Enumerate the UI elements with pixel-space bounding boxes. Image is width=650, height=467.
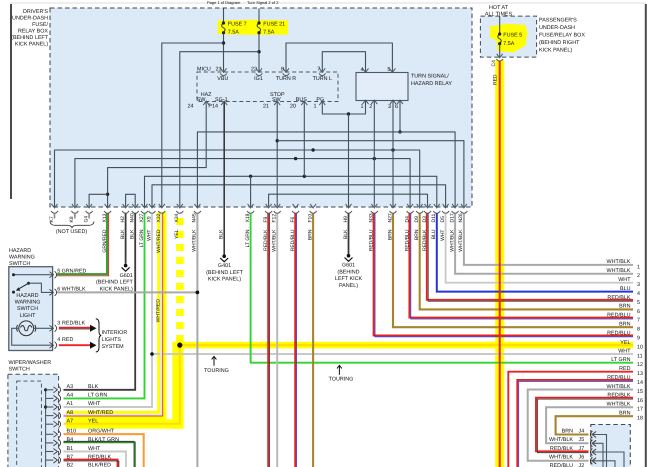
svg-text:4: 4 <box>637 291 640 297</box>
svg-text:WHT/BLK: WHT/BLK <box>458 229 464 252</box>
wire hazard pin4 RED <box>59 344 91 346</box>
pin D11 <box>433 204 440 213</box>
svg-text:3: 3 <box>57 320 60 326</box>
svg-text:B4: B4 <box>67 437 74 443</box>
page border left <box>10 4 12 199</box>
pin hazard 3 <box>49 325 56 332</box>
svg-text:WARNING: WARNING <box>15 300 41 306</box>
svg-text:D9: D9 <box>414 216 420 223</box>
wire N26 feed line <box>277 141 464 207</box>
label wiper/washer switch <box>9 360 52 373</box>
pin F10 <box>310 204 317 213</box>
node hazard blade pivot <box>27 282 30 285</box>
hazard warning switch box SW1 <box>9 267 53 351</box>
svg-text:A4: A4 <box>67 393 74 399</box>
svg-text:RED: RED <box>619 366 630 372</box>
label hot at all times <box>485 5 513 18</box>
wire N26 WHT/BLK row 1 <box>464 214 633 265</box>
svg-text:RED/BLU: RED/BLU <box>369 229 375 251</box>
svg-text:H9: H9 <box>343 216 349 223</box>
pin wiper B10 <box>53 431 60 438</box>
svg-text:12: 12 <box>637 362 643 368</box>
pin G4 <box>86 204 93 213</box>
pin MICU 7 <box>319 68 326 75</box>
svg-text:SWITCH: SWITCH <box>9 367 30 373</box>
svg-text:BLK/LT GRN: BLK/LT GRN <box>88 437 119 443</box>
hazard switch blade <box>16 283 29 291</box>
svg-text:TOURING: TOURING <box>204 368 229 374</box>
svg-text:RED/BLK: RED/BLK <box>88 454 111 460</box>
svg-text:RED/BLU: RED/BLU <box>290 229 296 251</box>
stub G4 <box>88 213 90 219</box>
pin MICU 1 <box>319 101 325 105</box>
wire D5 WHT row 3 <box>446 214 633 283</box>
svg-text:X27: X27 <box>139 213 145 222</box>
svg-text:BLK: BLK <box>120 229 126 239</box>
svg-text:RED/BLK: RED/BLK <box>422 229 428 251</box>
pin relay 3 <box>390 100 396 104</box>
svg-text:20: 20 <box>290 103 296 109</box>
wiper row stubs <box>46 390 54 460</box>
wire K7 line to D9 <box>55 150 420 207</box>
pin relay top 5 arrow <box>389 68 395 72</box>
svg-text:N33: N33 <box>369 213 375 222</box>
svg-text:WHT/BLK: WHT/BLK <box>607 384 631 390</box>
wire wiper B4 BLK/LT GRN <box>64 442 135 467</box>
svg-text:WHT/BLK: WHT/BLK <box>192 229 198 252</box>
svg-text:9: 9 <box>637 336 640 342</box>
svg-text:F12: F12 <box>272 214 278 223</box>
wire BUS from MICU pin20 <box>303 102 305 176</box>
svg-text:BUS: BUS <box>296 97 307 103</box>
svg-text:HOT AT: HOT AT <box>489 5 509 11</box>
svg-text:FUSE 7: FUSE 7 <box>228 21 247 27</box>
rotated pin id labels <box>49 213 464 222</box>
svg-text:WHT: WHT <box>88 446 101 452</box>
wire SG-1 P14 drop to G401 <box>223 102 225 255</box>
node relay pin2 junction on K8 line <box>373 157 376 160</box>
numbers right rows <box>637 264 643 421</box>
node YEL junction <box>177 343 182 348</box>
svg-text:INTERIOR: INTERIOR <box>102 330 128 336</box>
pin relay 2 <box>371 100 377 104</box>
svg-text:BLK: BLK <box>130 229 136 239</box>
svg-text:G601: G601 <box>342 263 355 269</box>
pin X13 <box>104 204 111 213</box>
wire D17 WHT/BLK row 2 <box>455 214 633 274</box>
svg-text:SWITCH: SWITCH <box>17 306 38 312</box>
label HAZ SW <box>197 92 212 103</box>
svg-text:WHT/RED: WHT/RED <box>156 299 162 323</box>
pin D9 <box>416 204 423 213</box>
node X19 tap on X27 line <box>249 175 252 178</box>
wire fuse7 feed from box top <box>223 9 225 22</box>
svg-text:22: 22 <box>251 67 257 73</box>
label fuse5 <box>503 33 522 47</box>
wire H2 BLK to G601 <box>125 214 127 264</box>
svg-text:G4: G4 <box>83 216 89 223</box>
pin wiper B7 <box>53 457 60 464</box>
label driver box <box>11 9 49 48</box>
wire H2-N40 bridge <box>126 194 136 206</box>
pin MICU 24 <box>203 101 209 105</box>
svg-text:N45: N45 <box>192 213 198 222</box>
svg-text:SG-1: SG-1 <box>215 97 228 103</box>
pin relay top 4 arrow <box>363 68 369 72</box>
svg-text:WHT/BLK: WHT/BLK <box>607 268 631 274</box>
wire N45 / D17 line <box>197 132 455 207</box>
svg-text:BLU: BLU <box>431 229 437 239</box>
wire hazard pin6 WHT/BLK <box>57 291 197 293</box>
wire D9 BRN row 6 <box>420 214 633 310</box>
pin MICU 22 <box>256 68 263 75</box>
svg-text:YEL: YEL <box>174 229 180 239</box>
svg-text:6: 6 <box>395 104 398 110</box>
wire N40 BLK to wiper A3 <box>64 214 136 390</box>
svg-text:15: 15 <box>637 389 643 395</box>
svg-text:5: 5 <box>57 269 60 275</box>
svg-text:5: 5 <box>387 67 390 73</box>
svg-text:KICK PANEL): KICK PANEL) <box>15 42 48 48</box>
svg-text:TURN L: TURN L <box>313 76 332 82</box>
svg-text:N27: N27 <box>387 213 393 222</box>
pin N45 <box>194 204 201 213</box>
svg-text:18: 18 <box>637 416 643 422</box>
wire PG MICU pin1 to relay pin1 <box>322 101 365 114</box>
svg-text:GRN/RED: GRN/RED <box>62 269 87 275</box>
ground G601 left <box>122 264 130 271</box>
fuse F7 symbol <box>222 21 226 34</box>
wire N33 RED/BLU row 9 <box>374 214 633 336</box>
svg-text:GRN/RED: GRN/RED <box>102 229 108 252</box>
ground G601 right <box>345 254 353 261</box>
node wiper A1 <box>44 405 47 408</box>
svg-text:B7: B7 <box>67 454 74 460</box>
pin F6 <box>292 204 299 213</box>
svg-text:LEFT KICK: LEFT KICK <box>335 276 363 282</box>
svg-text:A8: A8 <box>67 410 74 416</box>
svg-text:HAZARD RELAY: HAZARD RELAY <box>411 81 452 87</box>
label G601 right <box>335 263 363 289</box>
svg-text:(BEHIND LEFT: (BEHIND LEFT <box>11 35 49 41</box>
highlight WHT/RED wire vertical <box>157 212 166 420</box>
wire X34 YEL to wiper A7 <box>64 342 180 424</box>
svg-text:N26: N26 <box>458 213 464 222</box>
svg-text:LIGHTS: LIGHTS <box>102 337 122 343</box>
svg-text:F6: F6 <box>290 216 296 222</box>
ground G401 <box>220 254 228 261</box>
pin D17 <box>452 204 459 213</box>
lamp left lead to pin4 <box>12 328 53 345</box>
svg-text:LT GRN: LT GRN <box>245 229 251 247</box>
pin relay 6 <box>397 100 403 104</box>
pin H2 <box>122 204 129 213</box>
pin N33 <box>371 204 378 213</box>
node H9 tap on PG line <box>347 112 350 115</box>
wire F10 BRN down <box>312 214 314 467</box>
svg-text:J7: J7 <box>579 446 585 452</box>
wire WHT row 11 to right edge <box>152 353 633 355</box>
label hazard pin6 <box>57 286 86 292</box>
svg-text:J5: J5 <box>579 437 585 443</box>
svg-text:8: 8 <box>281 67 284 73</box>
svg-text:BLK: BLK <box>219 229 225 239</box>
node relay pin6 junction on D17 line <box>398 130 401 133</box>
label hazard pin5 <box>57 269 86 275</box>
wire F9 line to D3 <box>269 194 428 206</box>
svg-text:K7: K7 <box>49 216 55 222</box>
wire X13 GRN/RED to hazard pin5 <box>57 214 107 275</box>
wire X27 line to D11 <box>145 176 437 206</box>
svg-text:HAZARD: HAZARD <box>16 293 38 299</box>
svg-text:BRN: BRN <box>307 229 313 240</box>
svg-text:TOURING: TOURING <box>329 377 354 383</box>
pin F9 <box>265 204 272 213</box>
pin MICU 20 <box>301 101 307 105</box>
pin wiper B1 <box>53 448 60 455</box>
svg-text:SW: SW <box>197 97 207 103</box>
svg-text:WARNING: WARNING <box>9 254 35 260</box>
wire H9 hang <box>348 114 350 207</box>
wire G4 stub <box>89 194 108 206</box>
svg-text:H2: H2 <box>120 216 126 223</box>
pin X34 <box>176 204 183 213</box>
svg-text:B1: B1 <box>67 446 74 452</box>
svg-text:LT GRN: LT GRN <box>88 393 107 399</box>
svg-text:BRN: BRN <box>619 304 630 310</box>
svg-text:RELAY BOX: RELAY BOX <box>18 29 48 35</box>
svg-text:UNDER-DASH: UNDER-DASH <box>12 16 48 22</box>
pin X27 <box>141 204 148 213</box>
wire wiper B1 WHT <box>64 452 126 467</box>
svg-text:VBU: VBU <box>217 76 228 82</box>
label G401 <box>206 263 244 283</box>
junction box (bottom right) <box>591 425 631 467</box>
fuse5 feed wire <box>499 16 501 32</box>
fuse F21 symbol <box>257 21 261 34</box>
brace not used <box>50 222 94 229</box>
wire J7 internal <box>592 452 624 467</box>
svg-text:X32: X32 <box>156 213 162 222</box>
pin wiper A4 <box>53 395 60 402</box>
svg-text:RED/BLU: RED/BLU <box>607 330 630 336</box>
pin hazard 4 <box>49 342 56 349</box>
node wiper A3 <box>44 388 47 391</box>
svg-text:ORG/WHT: ORG/WHT <box>88 429 115 435</box>
svg-text:24: 24 <box>188 103 194 109</box>
wire IG1 from fuse21 to MICU pin 22 <box>258 34 260 72</box>
node relay pin3 junction on K7 line <box>391 148 394 151</box>
pin X32 <box>158 204 165 213</box>
pin wiper A1 <box>53 404 60 411</box>
svg-text:4: 4 <box>57 337 60 343</box>
wire X27 LT GRN to wiper A4 <box>64 214 145 399</box>
highlight YEL row 10 horizontal band <box>176 342 633 349</box>
svg-text:IG1: IG1 <box>254 76 263 82</box>
svg-text:2: 2 <box>637 273 640 279</box>
wire F6 RED/BLU down <box>294 214 296 467</box>
svg-text:5: 5 <box>637 300 640 306</box>
wire fuse5 to C4 connector <box>499 45 501 58</box>
svg-text:LT GRN: LT GRN <box>611 357 630 363</box>
wire J4 internal <box>592 435 606 467</box>
svg-text:G601: G601 <box>120 273 133 279</box>
wire N45 WHT/BLK down <box>196 214 198 467</box>
svg-text:BRN: BRN <box>619 322 630 328</box>
svg-text:PANEL): PANEL) <box>339 283 358 289</box>
wire J5 internal <box>592 443 603 467</box>
node hazard contact 5 <box>12 273 15 276</box>
touring arrow 1 <box>212 356 217 365</box>
svg-text:ALL TIMES: ALL TIMES <box>485 12 513 18</box>
svg-text:FUSE/: FUSE/ <box>32 22 48 28</box>
wire fuse21 feed from box top <box>258 9 260 22</box>
node F10 tap on K7 line <box>311 148 314 151</box>
svg-text:WHT/BLK: WHT/BLK <box>62 286 86 292</box>
wire WHT/BLK row 15 to J6 <box>528 390 633 461</box>
highlight fuse7/fuse21 <box>218 20 289 35</box>
wire hazard pin3 RED/BLK <box>59 327 91 329</box>
svg-text:WHT/BLK: WHT/BLK <box>607 402 631 408</box>
svg-text:23: 23 <box>216 67 222 73</box>
turn signal / hazard relay box U1 <box>356 73 408 101</box>
pin hazard 6 <box>49 289 56 296</box>
page border top <box>10 2 646 4</box>
highlight YEL wire dashed segments <box>176 218 184 342</box>
wire X13 to MICU pin24 HAZ SW <box>108 102 207 207</box>
svg-text:WHT/BLK: WHT/BLK <box>607 259 631 265</box>
pin D4 <box>407 204 414 213</box>
wire STOP SW MICU pin21 to F12 <box>276 102 278 207</box>
driver's under-dash fuse/relay box <box>50 8 472 207</box>
svg-text:7: 7 <box>637 318 640 324</box>
wire D4 RED/BLU row 7 <box>409 214 633 318</box>
svg-text:RED/BLU: RED/BLU <box>550 463 573 467</box>
svg-text:10: 10 <box>637 345 643 351</box>
svg-text:4: 4 <box>361 67 364 73</box>
svg-text:P14: P14 <box>208 103 218 109</box>
wire YEL row 10 to right edge <box>180 344 633 346</box>
node N26 feed tap on STOP wire <box>276 139 279 142</box>
svg-text:B10: B10 <box>67 429 77 435</box>
wire D11 BLU row 4 <box>437 214 633 292</box>
label hazard warning switch <box>9 248 35 267</box>
svg-text:BRN: BRN <box>619 411 630 417</box>
label STOP SW <box>270 92 285 103</box>
hazard switch contact line to pin5 <box>14 274 54 276</box>
wire D3 RED/BLK row 5 <box>427 214 633 300</box>
svg-text:D5: D5 <box>440 216 446 223</box>
wire VBU from fuse7 to MICU pin 23 <box>223 34 225 72</box>
svg-text:WHT/BLK: WHT/BLK <box>449 229 455 252</box>
node IG1 junction <box>257 50 260 53</box>
svg-text:A1: A1 <box>67 401 74 407</box>
pin MICU 23 <box>220 68 227 75</box>
MICU box <box>197 72 338 102</box>
svg-text:3: 3 <box>637 282 640 288</box>
wiper/washer switch box SW2 <box>8 374 59 467</box>
pin C4 <box>496 54 503 61</box>
pin N27 <box>390 204 397 213</box>
label fuse21 <box>263 21 285 35</box>
node hazard WHT/BLK junction <box>196 291 200 295</box>
svg-text:WHT: WHT <box>440 230 446 241</box>
svg-text:DRIVER'S: DRIVER'S <box>23 9 48 15</box>
pin J4 <box>590 431 596 438</box>
passenger's under-dash fuse/relay box <box>480 16 536 57</box>
svg-text:(BEHIND: (BEHIND <box>337 269 359 275</box>
wire RED/BLU row 14 <box>517 380 633 467</box>
svg-text:F10: F10 <box>307 214 313 223</box>
svg-text:8: 8 <box>637 327 640 333</box>
node VBU junction <box>222 41 225 44</box>
label fuse7 <box>228 21 247 35</box>
svg-text:WHT/RED: WHT/RED <box>88 410 113 416</box>
pin J7 <box>590 449 596 456</box>
svg-text:BRN: BRN <box>414 229 420 240</box>
svg-text:RED: RED <box>492 74 498 85</box>
label hazard warning switch light <box>15 293 41 319</box>
svg-text:LIGHT: LIGHT <box>20 313 37 319</box>
wire WHT/BLK row 17 to J5 <box>546 407 633 443</box>
svg-text:PG: PG <box>316 97 324 103</box>
pin MICU 8 <box>283 68 290 75</box>
wire F9 RED/BLK down <box>267 214 269 467</box>
svg-text:RED/BLK: RED/BLK <box>263 229 269 251</box>
svg-text:21: 21 <box>263 103 269 109</box>
svg-text:1: 1 <box>361 104 364 110</box>
svg-text:17: 17 <box>637 407 643 413</box>
label passenger box <box>539 18 585 54</box>
svg-text:RED/BLU: RED/BLU <box>607 375 630 381</box>
svg-text:BLU: BLU <box>620 286 631 292</box>
svg-text:MICU: MICU <box>197 67 211 73</box>
highlight RED wire from passenger box <box>495 60 504 467</box>
wiper switch common vertical <box>45 390 47 467</box>
pin X19 <box>247 204 254 213</box>
lamp right lead to pin3 <box>34 327 53 329</box>
svg-text:WHT/BLK: WHT/BLK <box>272 229 278 252</box>
svg-text:D3: D3 <box>422 216 428 223</box>
svg-text:FUSE 5: FUSE 5 <box>503 33 522 39</box>
svg-text:WHT: WHT <box>88 401 101 407</box>
wire J6 internal <box>592 461 615 467</box>
svg-text:BLK/RED: BLK/RED <box>88 463 111 467</box>
svg-text:RED/BLK: RED/BLK <box>62 320 85 326</box>
svg-text:G401: G401 <box>218 263 231 269</box>
svg-text:RED/BLK: RED/BLK <box>550 446 573 452</box>
svg-text:HAZARD: HAZARD <box>9 248 31 254</box>
highlight YEL wire A7 horizontal <box>66 419 176 428</box>
wire RED passenger feed down <box>499 61 501 467</box>
pin N26 <box>460 204 467 213</box>
wiper switch inner box <box>17 381 42 467</box>
svg-text:WHT/BLK: WHT/BLK <box>549 455 573 461</box>
svg-text:X34: X34 <box>174 213 180 222</box>
svg-text:FUSE 21: FUSE 21 <box>263 21 285 27</box>
wire N27 BRN row 8 <box>393 214 633 328</box>
svg-text:SW: SW <box>272 97 282 103</box>
svg-text:KICK PANEL): KICK PANEL) <box>539 48 572 54</box>
labels right rows <box>607 259 632 416</box>
rotated wire color labels <box>102 229 464 253</box>
svg-text:F9: F9 <box>263 216 269 222</box>
svg-text:(BEHIND LEFT: (BEHIND LEFT <box>206 270 244 276</box>
stub K7 <box>54 213 56 219</box>
wire relay pin6 drop <box>399 101 401 132</box>
node F6 tap on K8 line <box>294 157 297 160</box>
touring arrow 2 <box>337 365 342 374</box>
